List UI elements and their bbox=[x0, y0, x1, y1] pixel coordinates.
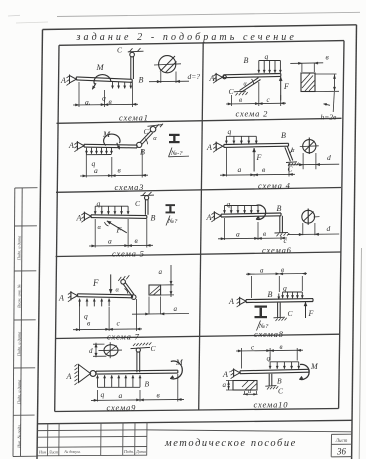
pin support A schema 1 bbox=[67, 75, 77, 86]
force F schema 2 bbox=[279, 77, 282, 101]
section circle schema 6 bbox=[302, 209, 320, 225]
svg-text:a: a bbox=[248, 388, 251, 395]
section dimension d schema 6 bbox=[288, 223, 339, 236]
svg-text:α: α bbox=[153, 135, 157, 142]
svg-text:a: a bbox=[94, 166, 98, 175]
label в schema 10 bbox=[280, 343, 283, 351]
svg-text:d=?: d=? bbox=[188, 72, 201, 81]
label a bottom schema 7 bbox=[174, 305, 178, 313]
label No schema 8 bbox=[257, 321, 270, 331]
strut B-C schema 2 bbox=[240, 78, 261, 93]
label в section schema 2 bbox=[326, 53, 330, 62]
beam A-B schema 6 bbox=[221, 213, 281, 217]
label F schema 5 bbox=[116, 226, 122, 235]
svg-text:F: F bbox=[308, 309, 314, 318]
dimension a,в schema 3 bbox=[80, 149, 148, 178]
member B-C schema 5 bbox=[145, 199, 148, 215]
svg-text:A: A bbox=[58, 294, 64, 303]
section dimension d schema 4 bbox=[288, 153, 339, 169]
distributed load q schema 5 bbox=[94, 206, 129, 214]
label A schema 5 bbox=[76, 214, 82, 223]
title block header labels bbox=[38, 449, 146, 455]
section dimension a left schema 10 bbox=[226, 381, 233, 391]
label d=? schema 1 bbox=[188, 72, 201, 81]
label B schema 5 bbox=[151, 214, 156, 223]
label A schema 2 bbox=[209, 74, 215, 83]
label c schema 6 bbox=[284, 236, 288, 245]
moment M schema 9 bbox=[170, 361, 182, 379]
svg-text:q: q bbox=[267, 354, 271, 363]
label a schema 9 bbox=[119, 391, 123, 400]
svg-text:Подп. и дата: Подп. и дата bbox=[16, 332, 21, 358]
beam schema 7 bbox=[78, 294, 133, 298]
I-beam section schema 8 bbox=[255, 306, 268, 319]
label A schema 10 bbox=[222, 370, 231, 379]
force F schema 4 bbox=[253, 148, 256, 172]
member B-C schema 6 bbox=[280, 216, 283, 233]
beam schema 8 bbox=[246, 299, 313, 303]
distributed load q schema 1 bbox=[111, 82, 132, 89]
svg-text:A: A bbox=[206, 213, 212, 222]
svg-text:h=2в: h=2в bbox=[321, 113, 338, 122]
label d schema 9 bbox=[89, 347, 93, 355]
angle α schema 4 bbox=[289, 147, 295, 154]
angle α schema 3 bbox=[145, 135, 157, 144]
schema 10 caption bbox=[254, 400, 289, 410]
label в schema 1 bbox=[109, 97, 113, 106]
pin support A schema 10 bbox=[231, 368, 240, 378]
label d schema 4 bbox=[327, 153, 331, 162]
I-beam section schema 5 bbox=[166, 204, 176, 213]
pin C schema 7 bbox=[118, 275, 129, 284]
svg-text:схема1: схема1 bbox=[119, 113, 149, 123]
svg-text:методическое пособие: методическое пособие bbox=[164, 438, 297, 449]
svg-text:A: A bbox=[66, 372, 72, 381]
svg-text:F: F bbox=[256, 153, 262, 162]
section square schema 2 bbox=[301, 73, 315, 92]
svg-text:a: a bbox=[260, 267, 264, 275]
pin support A schema 9 bbox=[75, 364, 96, 385]
label C schema 10 bbox=[278, 387, 284, 396]
schema 5 caption bbox=[112, 249, 145, 259]
label q schema 7 bbox=[84, 312, 88, 321]
label F schema 8 bbox=[308, 309, 314, 318]
label A schema 9 bbox=[66, 372, 72, 381]
label No schema 3 bbox=[169, 148, 190, 158]
label M schema 3 bbox=[102, 129, 111, 139]
pin C schema 1 bbox=[128, 48, 144, 57]
beam A-B schema 4 bbox=[224, 143, 289, 147]
label No schema 5 bbox=[166, 216, 178, 226]
beam schema 9 bbox=[96, 370, 178, 374]
label F schema 4 bbox=[256, 153, 262, 162]
label F schema 2 bbox=[283, 82, 289, 91]
moment M schema 3 bbox=[104, 134, 120, 149]
label B schema 9 bbox=[145, 380, 150, 389]
dimension a,в schema 9 bbox=[91, 374, 184, 402]
section square schema 7 bbox=[149, 285, 161, 295]
svg-text:B: B bbox=[277, 204, 282, 213]
section circle schema 9 bbox=[99, 342, 123, 358]
label q schema 8 bbox=[283, 284, 287, 293]
section dimension d schema 9 bbox=[93, 343, 106, 357]
label M schema 10 bbox=[310, 362, 319, 371]
schema 7 caption bbox=[107, 332, 140, 342]
support C schema 2 bbox=[234, 91, 248, 95]
member B-C schema 8 bbox=[278, 303, 281, 318]
support C schema 4 bbox=[286, 162, 299, 166]
label C schema 9 bbox=[151, 344, 157, 353]
svg-text:схема 7: схема 7 bbox=[107, 332, 140, 342]
label A schema 6 bbox=[206, 213, 212, 222]
pin C schema 5 bbox=[141, 192, 155, 200]
section dimensions a schema 7 bbox=[132, 265, 189, 315]
svg-text:схема 4: схема 4 bbox=[258, 181, 291, 191]
member C-B schema 9 bbox=[137, 352, 140, 373]
svg-text:B: B bbox=[268, 290, 273, 299]
svg-text:Подп. и дата: Подп. и дата bbox=[16, 380, 21, 406]
sheet number box bbox=[331, 434, 352, 457]
svg-text:Лист: Лист bbox=[335, 439, 348, 444]
pin C schema 3 bbox=[148, 124, 164, 132]
pin support A schema 6 bbox=[211, 211, 221, 222]
member B-C schema 10 bbox=[269, 374, 272, 386]
svg-text:F: F bbox=[116, 226, 122, 235]
label h=2в schema 2 bbox=[321, 113, 338, 122]
angle α schema 2 bbox=[244, 79, 254, 88]
label q schema 2 bbox=[265, 52, 269, 61]
svg-text:схема8: схема8 bbox=[254, 329, 284, 339]
svg-text:B: B bbox=[244, 56, 249, 65]
pin joint schema 7 bbox=[131, 295, 136, 300]
beam schema 10 bbox=[240, 369, 309, 373]
label d schema 6 bbox=[327, 224, 331, 233]
svg-text:a: a bbox=[223, 381, 227, 389]
svg-text:F: F bbox=[92, 278, 99, 288]
label q schema 10 bbox=[267, 354, 271, 363]
svg-text:схема9: схема9 bbox=[107, 403, 137, 413]
svg-text:q: q bbox=[227, 200, 231, 209]
distributed load q schema 10 bbox=[269, 362, 300, 369]
strut B-C schema 4 bbox=[285, 147, 293, 162]
label a left schema 10 bbox=[223, 381, 227, 389]
svg-text:B: B bbox=[151, 214, 156, 223]
svg-text:в: в bbox=[263, 230, 266, 238]
label q schema 1 bbox=[102, 93, 106, 102]
svg-text:F: F bbox=[283, 82, 289, 91]
label A schema 1 bbox=[60, 76, 66, 85]
moment arc schema 6 bbox=[256, 205, 266, 219]
beam A-B schema 5 bbox=[91, 215, 147, 219]
svg-text:Дата: Дата bbox=[135, 449, 146, 454]
label B schema 4 bbox=[281, 131, 286, 140]
section dimension a bottom schema 10 bbox=[243, 391, 258, 395]
pin B schema 3 bbox=[137, 142, 142, 147]
title text bbox=[76, 32, 297, 43]
dimension c,в schema 10 bbox=[236, 348, 303, 369]
label A schema 3 bbox=[68, 141, 74, 150]
distributed load q up schema 9 bbox=[96, 375, 141, 387]
svg-text:в: в bbox=[239, 96, 242, 104]
schema 4 caption bbox=[258, 181, 291, 191]
svg-text:M: M bbox=[175, 358, 184, 367]
label в schema 7 bbox=[87, 319, 91, 328]
label B schema 8 bbox=[268, 290, 273, 299]
moment arc schema 10 bbox=[299, 364, 309, 379]
member B-C schema 1 bbox=[131, 56, 134, 79]
label B schema 6 bbox=[277, 204, 282, 213]
label c schema 2 bbox=[267, 96, 271, 104]
section circle dimension d schema 1 bbox=[149, 72, 189, 84]
label A schema 7 bbox=[58, 294, 64, 303]
label q schema 5 bbox=[97, 199, 101, 208]
label a schema 6 bbox=[236, 230, 240, 239]
label M schema 9 bbox=[175, 358, 184, 367]
label a schema 3 bbox=[94, 166, 98, 175]
svg-text:B: B bbox=[281, 131, 286, 140]
label C schema 2 bbox=[229, 87, 235, 96]
dimension a,в schema 6 bbox=[218, 218, 287, 240]
strut B-C schema 3 bbox=[140, 131, 153, 144]
svg-text:A: A bbox=[60, 76, 66, 85]
label в schema 8 bbox=[281, 266, 284, 274]
svg-text:№ докум.: № докум. bbox=[63, 449, 80, 454]
dimension a,в schema 4 bbox=[220, 148, 295, 177]
svg-text:№-?: №-? bbox=[170, 150, 183, 157]
label B schema 3 bbox=[140, 147, 145, 156]
label C schema 1 bbox=[117, 46, 123, 55]
svg-text:B: B bbox=[277, 377, 282, 386]
label A schema 8 bbox=[228, 297, 234, 306]
svg-text:a: a bbox=[238, 165, 242, 174]
svg-text:M: M bbox=[102, 129, 111, 139]
svg-text:a: a bbox=[159, 268, 163, 276]
svg-text:d: d bbox=[89, 347, 93, 355]
svg-text:M: M bbox=[96, 62, 105, 72]
svg-text:Инв. № подл.: Инв. № подл. bbox=[16, 424, 21, 449]
label M schema 1 bbox=[96, 62, 105, 72]
distributed load q schema 6 bbox=[223, 206, 259, 214]
section circle schema 4 bbox=[300, 138, 319, 155]
schema 1 caption bbox=[119, 113, 149, 123]
svg-text:α: α bbox=[116, 287, 120, 294]
section dimension в schema 2 bbox=[290, 62, 323, 72]
svg-text:схема6: схема6 bbox=[262, 245, 292, 255]
svg-text:схема 5: схема 5 bbox=[112, 249, 145, 259]
svg-text:q: q bbox=[265, 52, 269, 61]
svg-text:d: d bbox=[327, 224, 331, 233]
svg-text:d: d bbox=[327, 153, 331, 162]
svg-text:Изм: Изм bbox=[38, 449, 46, 454]
dimension в,c schema 7 bbox=[73, 299, 142, 331]
svg-text:α: α bbox=[98, 224, 102, 231]
svg-text:Подп.: Подп. bbox=[123, 449, 134, 454]
svg-text:в: в bbox=[281, 266, 284, 274]
label в schema 2 bbox=[239, 96, 242, 104]
label a top schema 7 bbox=[159, 268, 163, 276]
svg-text:схема 2: схема 2 bbox=[236, 109, 269, 119]
angle α schema 5 bbox=[98, 222, 109, 231]
svg-text:36: 36 bbox=[336, 447, 347, 457]
beam A-B schema 2 bbox=[224, 74, 281, 78]
document title text bbox=[164, 438, 297, 449]
label q schema 4 bbox=[228, 127, 232, 136]
label C schema 5 bbox=[135, 199, 141, 208]
pin support A schema 2 bbox=[213, 73, 226, 83]
section square schema 10 bbox=[233, 381, 257, 391]
schema 6 caption bbox=[262, 245, 292, 255]
label C schema 3 bbox=[144, 127, 150, 136]
label в schema 4 bbox=[262, 165, 266, 174]
svg-text:q: q bbox=[101, 390, 105, 399]
label a schema 1 bbox=[85, 97, 91, 106]
svg-text:A´: A´ bbox=[222, 370, 231, 379]
svg-text:Взам. инв. №: Взам. инв. № bbox=[16, 284, 21, 308]
label a schema 5 bbox=[108, 237, 112, 246]
dimension a,в schema 8 bbox=[246, 272, 307, 298]
pin support A schema 3 bbox=[74, 141, 84, 152]
svg-text:q: q bbox=[283, 284, 287, 293]
label B schema 1 bbox=[139, 76, 144, 85]
inclined force F schema 5 bbox=[107, 221, 127, 233]
svg-text:a: a bbox=[108, 237, 112, 246]
svg-text:q: q bbox=[228, 127, 232, 136]
svg-text:A: A bbox=[206, 143, 212, 152]
label A schema 4 bbox=[206, 143, 212, 152]
section circle schema 1 bbox=[154, 56, 181, 73]
label a bottom schema 10 bbox=[248, 388, 251, 395]
beam A-B schema 3 bbox=[84, 144, 137, 148]
distributed load q schema 3 bbox=[85, 148, 112, 155]
svg-text:a.: a. bbox=[85, 97, 91, 106]
distributed load q schema 2 bbox=[258, 61, 282, 73]
label в schema 6 bbox=[263, 230, 266, 238]
svg-text:в: в bbox=[280, 343, 283, 351]
strut schema 7 bbox=[123, 282, 134, 296]
label q schema 6 bbox=[227, 200, 231, 209]
point arrow B schema 8 bbox=[278, 294, 280, 300]
svg-text:B: B bbox=[145, 380, 150, 389]
distributed load q schema 4 bbox=[225, 136, 257, 143]
label B schema 10 bbox=[277, 377, 282, 386]
label в schema 3 bbox=[118, 166, 122, 175]
pin support A schema 8 bbox=[237, 297, 246, 307]
support C schema 6 bbox=[275, 232, 290, 236]
dimension в,c schema 2 bbox=[226, 82, 286, 106]
support C schema 10 bbox=[265, 386, 278, 390]
label c schema 7 bbox=[117, 319, 121, 328]
svg-text:A: A bbox=[68, 141, 74, 150]
label B schema 2 bbox=[244, 56, 249, 65]
svg-text:q: q bbox=[102, 93, 106, 102]
svg-text:a: a bbox=[174, 305, 178, 313]
label C schema 4 bbox=[288, 165, 294, 174]
force F schema 8 bbox=[304, 302, 307, 318]
angle α schema 7 bbox=[116, 287, 128, 294]
support C schema 8 bbox=[274, 317, 287, 321]
beam A-B schema 1 bbox=[76, 77, 132, 82]
pin support A schema 5 bbox=[81, 212, 91, 223]
svg-text:M: M bbox=[310, 362, 319, 371]
label в schema 9 bbox=[157, 391, 161, 400]
label c schema 10 bbox=[251, 344, 255, 352]
force F schema 7 bbox=[109, 274, 112, 293]
label F schema 7 bbox=[92, 278, 99, 288]
svg-text:Лист: Лист bbox=[48, 449, 59, 454]
moment M schema 1 bbox=[92, 75, 111, 90]
label q schema 3 bbox=[92, 159, 96, 168]
schema 8 caption bbox=[254, 329, 284, 339]
distributed load q schema 8 bbox=[281, 292, 303, 298]
pin support A schema 4 bbox=[213, 142, 223, 153]
svg-text:Подп. и дата: Подп. и дата bbox=[16, 236, 21, 262]
stamp strip rotated labels bbox=[16, 236, 21, 449]
dimension a,в schema 5 bbox=[89, 219, 153, 248]
dimension a,в schema 1 bbox=[73, 82, 138, 107]
label в schema 5 bbox=[135, 236, 139, 245]
svg-text:a: a bbox=[119, 391, 123, 400]
svg-text:схема10: схема10 bbox=[254, 400, 289, 410]
section dimension h schema 2 bbox=[315, 74, 339, 112]
schema 2 caption bbox=[236, 109, 269, 119]
distributed load q up schema 7 bbox=[78, 299, 110, 307]
label a schema 4 bbox=[238, 165, 242, 174]
label q schema 9 bbox=[101, 390, 105, 399]
schema 9 caption bbox=[107, 403, 137, 413]
svg-text:A: A bbox=[76, 214, 82, 223]
label C schema 8 bbox=[288, 309, 294, 318]
svg-text:схема3: схема3 bbox=[115, 182, 145, 192]
pin support A schema 7 bbox=[68, 291, 78, 302]
svg-text:A: A bbox=[228, 297, 234, 306]
schema 3 caption bbox=[115, 182, 145, 192]
I-beam section schema 3 bbox=[169, 134, 180, 143]
svg-text:B: B bbox=[139, 76, 144, 85]
label a schema 8 bbox=[260, 267, 264, 275]
svg-text:a: a bbox=[236, 230, 240, 239]
support C schema 9 bbox=[131, 342, 152, 352]
